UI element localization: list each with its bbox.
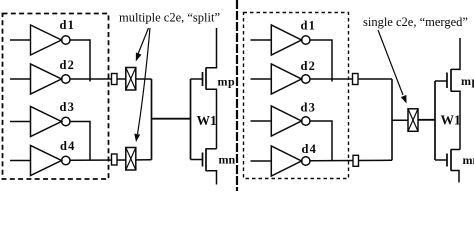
- wire gate bus right: [434, 81, 436, 160]
- svg-text:d2: d2: [301, 59, 317, 73]
- boundary pin lower left: [112, 154, 118, 165]
- inverter d1: [31, 25, 71, 55]
- c2e element lower (split): [126, 148, 136, 171]
- wire d1 output right: [310, 40, 332, 82]
- transistor mn right: [435, 149, 460, 182]
- dashed enclosure box right (merged driver block): [244, 13, 349, 179]
- arrow to merged c2e: [378, 30, 407, 104]
- boundary pin lower right: [353, 155, 359, 166]
- transistor mp right: [435, 38, 460, 150]
- wire d4 input: [10, 160, 31, 162]
- svg-text:mp: mp: [218, 75, 236, 89]
- inverter d4: [31, 146, 71, 176]
- inverter d4 right: [271, 146, 310, 176]
- wire bus joining c2e outputs left: [151, 79, 153, 160]
- wire d4 input right: [251, 160, 272, 162]
- wire to merged c2e: [392, 119, 408, 121]
- svg-text:d1: d1: [60, 18, 76, 32]
- wire d3 output: [70, 122, 90, 160]
- svg-text:d1: d1: [301, 19, 317, 33]
- svg-text:mp: mp: [461, 74, 474, 88]
- wire d1 input right: [251, 39, 272, 41]
- arrow to upper c2e: [136, 28, 149, 62]
- transistor mp left: [191, 28, 217, 149]
- inverter d3: [31, 107, 71, 137]
- svg-text:multiple c2e, “split”: multiple c2e, “split”: [119, 11, 220, 25]
- dashed enclosure box left (split driver block): [3, 14, 109, 180]
- boundary pin upper left: [112, 74, 118, 85]
- wire d3 input: [10, 121, 31, 123]
- wire bus joining outputs right: [391, 79, 393, 160]
- inverter d2 right: [271, 64, 310, 94]
- svg-text:d3: d3: [301, 101, 317, 115]
- wire d2 input right: [251, 78, 272, 80]
- svg-text:d4: d4: [302, 142, 318, 156]
- wire d1 input: [10, 39, 31, 41]
- wire gate bus left: [190, 79, 192, 160]
- wire d2 input: [10, 78, 31, 80]
- c2e element upper (split): [126, 68, 136, 91]
- inverter d3 right: [271, 106, 310, 136]
- wire d3 output right: [310, 121, 332, 161]
- svg-text:W1: W1: [441, 112, 462, 127]
- wire d3 input right: [251, 120, 272, 122]
- svg-text:d2: d2: [60, 58, 76, 72]
- wire d4 output to c2e: [70, 159, 152, 162]
- svg-text:W1: W1: [197, 113, 218, 128]
- svg-text:d4: d4: [60, 139, 76, 153]
- svg-text:mn: mn: [219, 153, 236, 167]
- svg-text:d3: d3: [60, 100, 76, 114]
- wire d1 output: [70, 40, 90, 82]
- wire d4 output right: [310, 159, 392, 162]
- wire c2e to gate bus right: [418, 119, 435, 121]
- dashed column separator: [236, 0, 238, 191]
- inverter d2: [31, 64, 71, 94]
- arrow to lower c2e: [134, 28, 150, 142]
- inverter d1 right: [271, 25, 310, 55]
- boundary pin upper right: [353, 74, 359, 85]
- svg-text:mn: mn: [463, 153, 474, 167]
- transistor mn left: [191, 148, 217, 184]
- wire d2 output right: [310, 78, 392, 80]
- svg-text:single c2e, “merged”: single c2e, “merged”: [363, 15, 468, 29]
- c2e element merged: [408, 109, 418, 132]
- wire d2 output to c2e: [70, 78, 152, 80]
- wire W1 gate wire left: [152, 118, 191, 120]
